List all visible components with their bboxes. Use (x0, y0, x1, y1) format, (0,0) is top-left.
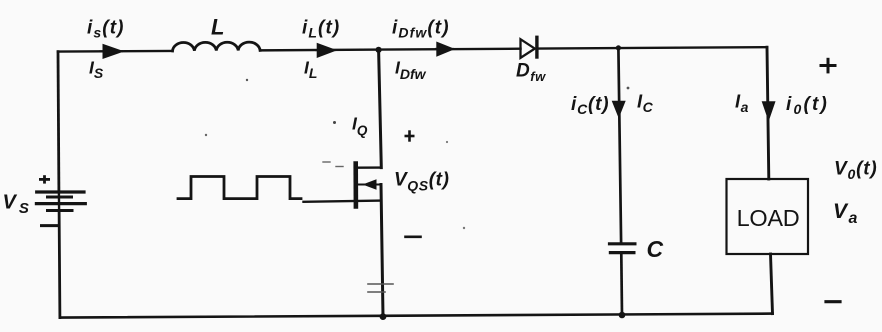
scan speck 5 (205, 134, 207, 136)
MOSFET Q1 drain stub (356, 166, 381, 168)
gate drive pulse waveform (178, 177, 301, 199)
plus sign output (820, 58, 837, 74)
node junction dot (switch node) (376, 47, 382, 53)
plus sign V_QS (405, 130, 415, 141)
diode Dfw triangle (521, 39, 535, 58)
svg-text:VQS(t): VQS(t) (394, 170, 450, 194)
scan speck 7 (627, 87, 630, 90)
svg-text:L: L (211, 15, 224, 40)
wire top-left segment (source to inductor) (58, 50, 173, 53)
current arrow i_0 (down) (763, 102, 775, 119)
svg-text:i0(t): i0(t) (786, 94, 829, 117)
scan speck 8 (446, 141, 448, 143)
svg-text:iC(t): iC(t) (571, 94, 609, 117)
plus sign battery (39, 175, 50, 183)
svg-text:IC: IC (637, 91, 654, 116)
svg-text:Dfw: Dfw (516, 61, 546, 85)
scan speck 4 (336, 166, 343, 168)
capacitor C bottom plate (610, 251, 634, 254)
svg-text:Va: Va (833, 200, 859, 227)
svg-text:IQ: IQ (352, 114, 368, 139)
MOSFET Q1 source vertical wire (381, 185, 383, 317)
MOSFET Q1 drain vertical wire (379, 50, 382, 168)
svg-text:iL(t): iL(t) (302, 18, 340, 41)
load branch lower wire (771, 254, 773, 314)
battery VS plate 4 short (48, 209, 73, 212)
capacitor branch lower wire (620, 254, 623, 315)
current arrow i_s (100, 45, 122, 57)
scan speck 1 (333, 121, 336, 124)
svg-text:Ia: Ia (735, 91, 749, 116)
svg-text:LOAD: LOAD (737, 205, 800, 231)
node junction dot (capacitor bottom) (619, 312, 626, 319)
svg-text:IDfw: IDfw (395, 58, 427, 83)
MOSFET Q1 source arrow stub (358, 184, 381, 186)
wire diode to top-right corner (539, 47, 768, 48)
svg-text:C: C (647, 236, 664, 262)
battery VS plate 3 long (36, 202, 85, 205)
diode Dfw cathode bar (535, 37, 538, 57)
minus sign V_QS (406, 236, 421, 239)
node junction dot (capacitor top) (616, 45, 621, 50)
svg-text:IL: IL (304, 58, 317, 82)
minus sign battery (42, 224, 58, 227)
battery VS plate 1 long (37, 190, 84, 193)
MOSFET Q1 arrowhead (points left) (363, 179, 377, 189)
current arrow i_Dfw (436, 43, 453, 55)
wire inductor to diode anode (260, 49, 520, 51)
capacitor C top plate (610, 242, 635, 245)
MOSFET Q1 channel/gate bar (353, 164, 358, 207)
left vertical wire (top) (57, 52, 61, 192)
svg-text:IS: IS (89, 58, 104, 82)
svg-text:V0(t): V0(t) (834, 158, 877, 182)
current arrow i_L (316, 44, 335, 56)
scan speck 3 (323, 161, 330, 163)
scan speck 6 (463, 227, 465, 229)
inductor L (173, 42, 261, 51)
svg-text:VS: VS (3, 192, 32, 218)
svg-text:iDfw(t): iDfw(t) (392, 18, 450, 41)
MOSFET Q1 gate/source horizontal lead (304, 201, 382, 202)
scan speck 2 (246, 79, 248, 81)
capacitor branch upper wire (618, 48, 621, 242)
node junction dot (source bottom) (380, 313, 387, 320)
left vertical wire (bottom) (58, 211, 62, 318)
load branch upper wire (767, 47, 769, 179)
current arrow i_C (down) (613, 102, 625, 117)
battery VS center stub through plates (58, 192, 61, 211)
minus sign output (826, 300, 840, 303)
LOAD box (727, 179, 809, 254)
wire bottom (60, 314, 773, 318)
battery VS plate 2 short (48, 196, 72, 199)
svg-text:is(t): is(t) (87, 18, 125, 41)
scan artifact dash 1 (368, 283, 393, 285)
scan artifact dash 2 (368, 291, 385, 293)
